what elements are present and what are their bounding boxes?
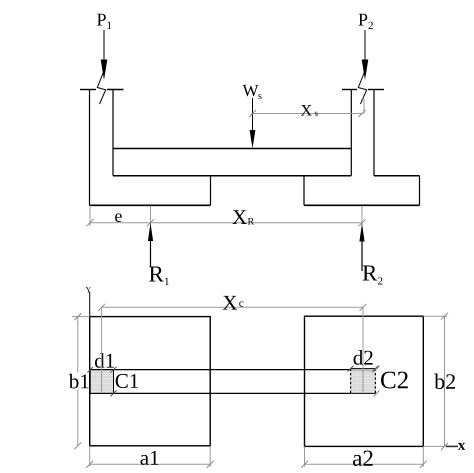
footing 2 plan outline [305, 316, 424, 446]
reaction label R2 [363, 265, 383, 284]
load arrow P1 [101, 30, 108, 80]
dimension tick d1 left [87, 367, 93, 373]
footing 2 elevation left edge [303, 176, 305, 206]
dimension label d1 [95, 353, 114, 368]
reaction label R1 [149, 266, 169, 285]
column 2 top flange [342, 89, 384, 91]
column 2 break symbol [358, 72, 366, 104]
dimension tick Xc left [98, 304, 105, 311]
Y axis label [86, 287, 91, 292]
dimension line Xc [102, 306, 363, 308]
dimension tick at R1 [147, 219, 154, 226]
load label P2 [359, 14, 373, 29]
column C2 cross-section [351, 369, 376, 394]
column 1 left edge / footing 1 left edge [89, 90, 91, 206]
Y axis line [89, 292, 91, 318]
footing 1 elevation bottom [90, 204, 211, 206]
column C1 cross-section [90, 370, 113, 394]
dimension label b2 [434, 374, 455, 389]
strap beam bottom / footing tops line [113, 175, 420, 177]
column 2 left edge [350, 90, 352, 176]
x axis label [458, 443, 465, 450]
load arrow P2 [362, 30, 369, 80]
dimension label e [115, 213, 122, 222]
footing 1 plan outline [90, 317, 211, 446]
reaction arrow R1 [148, 223, 153, 267]
column label C2 [381, 372, 408, 389]
footing 2 elevation bottom [304, 204, 420, 206]
dimension tick at e left [87, 219, 94, 226]
dimension label d2 [354, 350, 373, 365]
Xc extension line at C2 center [362, 307, 364, 393]
dimension Xs label [301, 105, 318, 116]
x axis line [423, 445, 458, 447]
dimension tick d2 left [348, 366, 354, 372]
dimension line a1 [86, 446, 214, 468]
strap beam plan top edge [90, 369, 351, 371]
column 1 top flange [80, 89, 124, 91]
dimension tick C2 top right [374, 366, 380, 372]
column 2 right edge [373, 90, 375, 176]
soil weight label Ws [243, 85, 262, 99]
dimension label a2 [353, 450, 373, 465]
column 1 right edge [112, 90, 114, 176]
reaction arrow R2 [359, 224, 364, 272]
dimension Xs line [249, 99, 366, 117]
extension line at footing 1 left [89, 206, 91, 226]
soil weight arrow Ws [250, 98, 256, 149]
extension line at R2 [361, 206, 363, 226]
extension line at R1 [150, 206, 152, 226]
dimension line e / XR [90, 222, 362, 224]
dimension label XR [232, 210, 254, 224]
dimension tick Xc right [360, 304, 367, 311]
dimension line b2 [423, 313, 448, 450]
dimension label b1 [68, 373, 89, 391]
dimension label Xc [223, 296, 244, 310]
dimension tick at R2 [359, 219, 366, 226]
dimension line a2 [301, 446, 427, 467]
dimension label a1 [141, 451, 159, 465]
Xc extension line at C1 center [101, 307, 103, 393]
footing 1 elevation right edge [210, 176, 212, 206]
load label P1 [97, 14, 111, 29]
dimension tick C2 bottom right [374, 390, 380, 396]
column label C1 [116, 374, 138, 388]
dimension tick d1 right [111, 367, 117, 373]
strap beam plan bottom edge [90, 392, 351, 394]
dimension line b1 [72, 313, 90, 449]
strap beam top line [113, 148, 351, 150]
dimension tick C1 bottom right [111, 390, 117, 396]
column 1 break symbol [97, 72, 105, 104]
footing 2 elevation right edge [419, 176, 421, 206]
dimension tick d2 right [372, 366, 378, 372]
